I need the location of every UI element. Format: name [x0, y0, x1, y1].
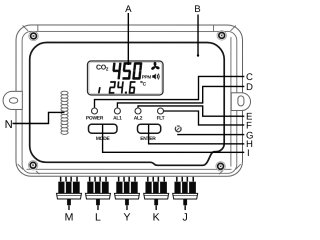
enclosure outer shell	[16, 25, 243, 176]
svg-text:I: I	[247, 148, 250, 159]
LED POWER	[92, 108, 98, 114]
callout line G (screw icon)	[177, 134, 244, 136]
lid inner rim line bottom	[26, 168, 231, 170]
svg-text:CO2: CO2	[96, 65, 109, 72]
LCD unit label degC (row 2)	[141, 81, 147, 87]
cable gland Y	[114, 177, 139, 210]
svg-text:J: J	[183, 212, 188, 224]
svg-text:N: N	[5, 119, 13, 131]
corner screw top-left	[29, 31, 38, 40]
corner seam bottom-left	[18, 164, 40, 174]
corner seam top-right	[214, 25, 236, 31]
cable gland J	[173, 177, 198, 210]
LED FLT	[158, 108, 164, 114]
callout line E (AL2 LED)	[138, 106, 244, 116]
button MODE	[88, 124, 117, 133]
button ENTER	[137, 124, 160, 133]
callout line B	[197, 15, 199, 56]
callout B end dot	[197, 54, 199, 56]
svg-text:M: M	[65, 212, 74, 224]
corner screw bottom-right	[216, 162, 225, 171]
svg-text:POWER: POWER	[86, 115, 104, 121]
right ear slot hole	[238, 96, 244, 106]
front panel (dark outline)	[30, 42, 225, 165]
LCD 7-segment reading 450	[112, 62, 143, 79]
callout line N (buzzer coil)	[12, 112, 64, 123]
corner seam top-left	[23, 25, 38, 31]
svg-text:Y: Y	[123, 212, 130, 224]
svg-text:C: C	[143, 81, 147, 87]
svg-text:AL1: AL1	[113, 115, 122, 121]
svg-text:D: D	[246, 82, 253, 93]
LCD fan icon	[151, 62, 161, 71]
callout line F (FLT LED)	[163, 111, 244, 125]
callout line H (ENTER button)	[149, 125, 245, 144]
calibration screw icon	[175, 126, 181, 132]
LED AL1	[114, 108, 120, 114]
callout line C (POWER LED)	[95, 76, 245, 107]
cable gland M	[56, 177, 81, 210]
svg-text:A: A	[125, 4, 132, 15]
corner screw top-right	[217, 31, 226, 40]
callout line A	[127, 13, 129, 65]
callout line I (MODE button)	[103, 125, 245, 153]
left mounting ear	[3, 91, 22, 109]
enclosure lid rim	[22, 31, 237, 173]
LCD display bezel	[88, 61, 164, 95]
LCD small digit 1 (row 2)	[99, 87, 100, 93]
cable gland L	[85, 177, 110, 210]
buzzer coil (N target)	[61, 91, 68, 134]
corner seam bottom-right	[219, 164, 241, 174]
callout line D (AL1 LED)	[117, 86, 244, 107]
LCD speaker icon	[152, 74, 159, 80]
svg-text:PPM: PPM	[142, 75, 152, 80]
corner screw bottom-left	[28, 161, 37, 170]
lid inner rim line right	[230, 37, 232, 166]
svg-text:K: K	[153, 212, 160, 224]
right mounting ear	[231, 93, 250, 111]
LED AL2	[135, 108, 141, 114]
svg-text:AL2: AL2	[134, 115, 143, 121]
cable gland K	[144, 177, 169, 210]
LCD 7-segment reading 24.6	[109, 81, 136, 93]
svg-text:L: L	[95, 212, 101, 224]
svg-text:FLT: FLT	[157, 115, 165, 121]
left ear slot hole	[9, 98, 17, 104]
svg-text:B: B	[194, 4, 200, 15]
